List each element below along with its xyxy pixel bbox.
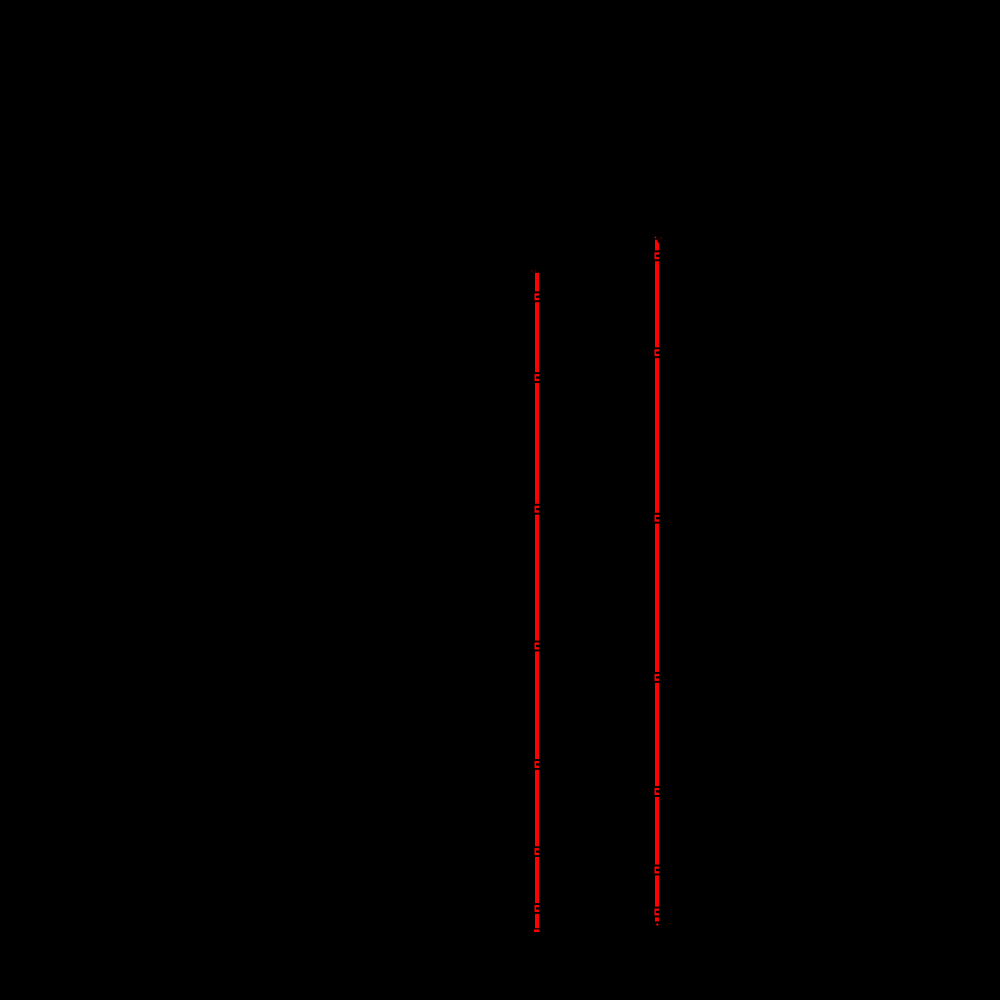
- tick label notch L1 (black glyph cutting red line): [534, 291, 540, 302]
- tick label notch L7 (black glyph cutting red line): [534, 903, 540, 914]
- tick label notch L3 (black glyph cutting red line): [534, 504, 540, 515]
- tick label notch L6 (black glyph cutting red line): [534, 846, 540, 857]
- right axis top dot: [655, 237, 657, 239]
- tick label notch R7 (black glyph cutting red line): [654, 907, 660, 918]
- left axis bottom glyph nub: [534, 930, 539, 933]
- left axis faint label remnant above top: [531, 270, 533, 272]
- right red axis line: [655, 240, 659, 922]
- left red axis line: [535, 273, 539, 928]
- tick label notch L2 (black glyph cutting red line): [534, 372, 540, 383]
- tick label notch R6 (black glyph cutting red line): [654, 865, 660, 876]
- right axis top diagonal cut: [657, 240, 660, 245]
- tick label notch R5 (black glyph cutting red line): [654, 786, 660, 797]
- tick label notch L5 (black glyph cutting red line): [534, 759, 540, 770]
- tick label notch R4 (black glyph cutting red line): [654, 672, 660, 683]
- tick label notch R3 (black glyph cutting red line): [654, 513, 660, 524]
- tick label notch L4 (black glyph cutting red line): [534, 641, 540, 652]
- right axis faint top-right smudge: [660, 237, 662, 239]
- tick label notch R1 (black glyph cutting red line): [654, 250, 660, 261]
- tick label notch R2 (black glyph cutting red line): [654, 347, 660, 358]
- right axis bottom detached tick: [656, 923, 659, 926]
